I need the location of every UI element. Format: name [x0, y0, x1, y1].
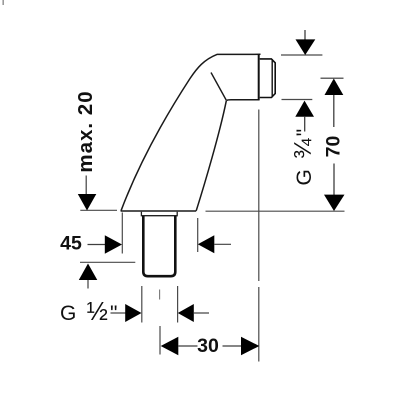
dim max20 up tail	[87, 280, 89, 289]
dim 30 left arrow	[161, 337, 179, 356]
ext line 30 left	[159, 326, 161, 355]
ext line wall max	[80, 261, 135, 263]
pipe centerline dash	[159, 290, 161, 300]
dim G12 right line	[194, 312, 209, 314]
dim 30 right line	[223, 345, 242, 347]
corner artifact mark	[2, 0, 4, 5]
svg-text:70: 70	[323, 136, 345, 158]
ext line outlet bottom	[282, 99, 313, 101]
dim G12 left line	[111, 312, 127, 314]
dim G34 up arrow	[295, 101, 314, 117]
ext line 45 right vertical	[197, 218, 199, 252]
dim 70 down arrow	[324, 195, 345, 211]
svg-text:G ¾": G ¾"	[290, 127, 317, 186]
dim max20 up arrow	[79, 264, 98, 281]
ext line G12 right	[177, 286, 179, 323]
outlet thread relief line	[271, 59, 273, 97]
ext line outlet base vertical upper	[258, 110, 260, 282]
svg-text:45: 45	[60, 233, 82, 255]
ext line G12 left	[141, 286, 143, 323]
dim G12 left arrow	[178, 304, 194, 322]
outlet thread G3/4 outline	[260, 59, 276, 98]
ext line outlet top	[281, 54, 322, 56]
ext line bottom face long	[206, 210, 345, 212]
dim 30 mid line	[178, 345, 197, 347]
dim 45 right line	[214, 243, 231, 245]
dim G34 bottom tail	[304, 117, 306, 132]
spout body right edge	[196, 101, 226, 211]
spout bottom edge	[121, 210, 197, 212]
dim max20 down arrow	[78, 194, 97, 211]
dim 45 left line	[88, 244, 106, 246]
spout body outline	[121, 54, 261, 211]
dim 70 up arrow	[325, 79, 344, 96]
dim 45 left arrow	[198, 235, 215, 253]
dim max20 tail	[85, 176, 87, 195]
dim G34 down arrow	[296, 39, 316, 55]
ext line outlet base vertical lower	[258, 287, 260, 362]
dim 30 right arrow	[241, 337, 259, 356]
dim 45 right arrow	[105, 235, 122, 254]
dim G12 right arrow	[125, 304, 141, 322]
dim 70 lower tail	[333, 164, 335, 196]
dim 70 upper tail	[333, 95, 335, 127]
ext line 45 left vertical	[121, 213, 123, 254]
spout underside line	[227, 99, 260, 102]
dim G34 top tail	[304, 30, 306, 40]
ext line left of corner	[80, 209, 117, 211]
outlet junction ring	[258, 54, 260, 100]
svg-text:G ½": G ½"	[60, 298, 120, 326]
pipe G1/2 nipple	[143, 216, 175, 276]
tick 70 top	[321, 77, 344, 79]
svg-text:max. 20: max. 20	[74, 90, 97, 172]
svg-text:30: 30	[197, 335, 219, 357]
pipe rim washer	[141, 212, 177, 216]
spout crease line	[211, 73, 227, 101]
